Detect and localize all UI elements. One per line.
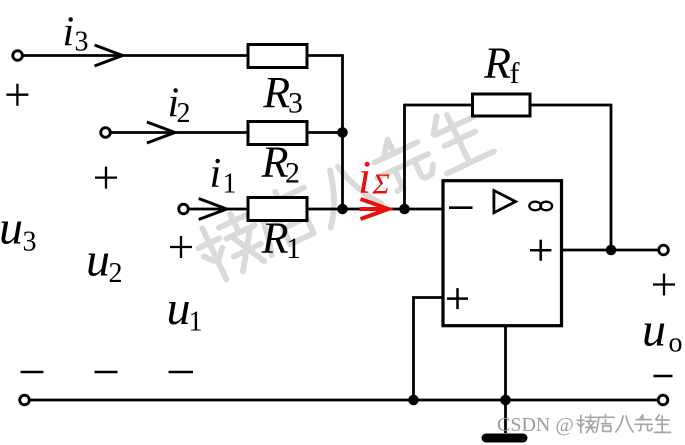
svg-text:3: 3 [23,227,37,258]
svg-text:3: 3 [75,27,89,58]
svg-text:2: 2 [285,157,300,190]
svg-text:u: u [86,234,110,287]
svg-text:1: 1 [189,307,203,338]
svg-text:u: u [167,282,191,335]
svg-text:1: 1 [223,169,237,200]
svg-text:R: R [483,39,511,88]
svg-text:f: f [510,57,520,90]
svg-text:o: o [669,328,683,359]
svg-text:CSDN @: CSDN @ [497,414,574,436]
svg-text:1: 1 [286,232,301,265]
svg-text:R: R [262,68,290,117]
svg-text:Σ: Σ [372,169,390,201]
svg-text:R: R [261,214,289,263]
svg-text:u: u [642,303,666,356]
svg-text:2: 2 [177,98,191,129]
svg-text:3: 3 [288,87,303,120]
svg-text:i: i [358,152,371,204]
svg-text:u: u [0,202,23,255]
svg-text:2: 2 [109,258,123,289]
svg-text:i: i [210,151,222,197]
svg-text:i: i [63,9,75,55]
